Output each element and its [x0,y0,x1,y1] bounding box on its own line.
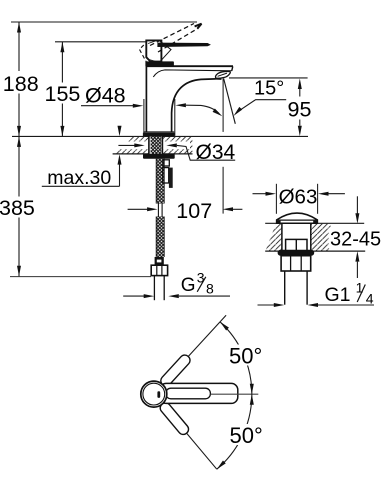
countertop hatching left [113,136,193,154]
svg-text:max.30: max.30 [47,167,111,189]
deck extension line [12,135,308,137]
dimension G 3/8 [123,270,230,299]
dimension hole Ø34 [118,141,235,164]
dimension Ø48 [81,83,223,118]
lever closed [157,43,211,47]
drain hex nut [281,256,311,271]
svg-text:50°: 50° [229,343,262,368]
top view: rotated lever stub upper [159,353,192,388]
extension line at hose end [10,276,151,278]
stream vertical reference line [222,78,224,131]
top view: body circle [141,381,167,407]
svg-text:95: 95 [288,97,312,121]
extension line top of raised handle [11,21,197,23]
dimension 107 [128,199,243,223]
raised handle dashes lower-left [139,45,148,67]
svg-text:32-45: 32-45 [330,229,381,251]
handle base [146,40,161,61]
extension line spout outlet [229,77,308,79]
top view: 50 deg line lower [162,404,217,469]
dimension 188 [3,22,39,136]
svg-text:107: 107 [176,199,212,223]
arc arrowheads [219,320,229,330]
right deck top edge [265,222,364,224]
drain body in deck [282,223,311,251]
dimension 32-45 [329,196,381,278]
raised handle base tilted square [159,40,171,62]
top view: 50 deg line upper [163,315,227,384]
dimension 385 [0,136,35,276]
flexible hose upper braid [156,159,164,204]
flexible hose lower braid [156,217,164,258]
dimension max.30 [42,126,122,189]
drain washer [278,250,315,256]
drain detail: Ø63 extension lines [275,184,277,214]
aerator [215,71,230,78]
cartridge collar [145,61,174,66]
dimension 15 degrees [232,77,286,117]
dimension G1 1/4 [258,280,375,307]
svg-text:Ø34: Ø34 [196,141,236,164]
faucet body outline [146,66,233,132]
hose break thin tube [158,203,162,218]
lever raised dashed [150,24,198,53]
extension line top of closed lever [55,41,160,43]
svg-text:G1: G1 [325,284,351,306]
white channel for hole arrows [114,141,190,149]
right deck bottom edge [265,250,365,252]
dimension Ø63 [253,185,345,208]
svg-text:15°: 15° [254,77,284,99]
top view: lever [160,383,238,403]
stream line 15 deg [224,78,236,123]
mounting stud and nut [163,160,173,188]
svg-text:1: 1 [356,280,364,296]
faucet shank through deck [149,136,163,154]
top view: centerline [211,393,259,395]
dimension 155 [45,42,81,137]
svg-text:3: 3 [197,270,205,286]
svg-text:188: 188 [3,72,39,96]
svg-text:155: 155 [45,82,81,106]
svg-text:8: 8 [206,281,214,297]
hose crimp collar [155,257,164,265]
dimension 95 [288,79,312,137]
countertop hatching right [265,223,330,251]
base plate [143,131,174,133]
svg-text:50°: 50° [230,423,263,448]
drain flange cap [277,213,318,223]
top view: rotated lever stub lower [158,401,190,437]
label 50 lower [228,423,265,448]
top view: angle arc [217,322,252,469]
svg-text:4: 4 [366,291,374,307]
G3/8 connection tube [153,276,155,301]
drain pipe [284,271,286,305]
svg-text:Ø63: Ø63 [279,185,318,208]
svg-text:G: G [181,275,196,296]
top view: center dash [157,391,160,398]
Ø48 extension lines [143,99,145,136]
label 50 upper [228,343,265,368]
hose nut [151,265,167,275]
countertop bottom edge [113,153,193,155]
lever raised tip [195,24,202,29]
svg-text:Ø48: Ø48 [85,83,126,107]
svg-text:385: 385 [0,196,35,220]
mounting washer under deck [143,154,175,159]
